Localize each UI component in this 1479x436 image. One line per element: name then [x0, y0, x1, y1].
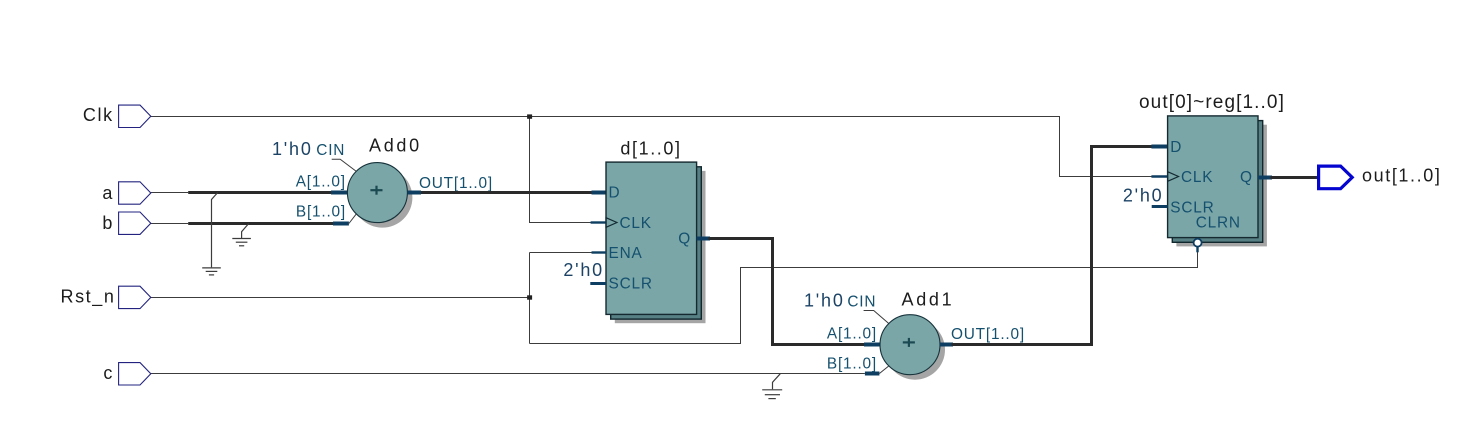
input port Clk	[119, 105, 151, 127]
register out reg shadow	[1176, 125, 1267, 247]
svg-text:Q: Q	[1240, 169, 1253, 186]
reg CLRN bubble	[1194, 239, 1202, 253]
wire bus b thick segment	[188, 222, 334, 225]
svg-text:A[1..0]: A[1..0]	[296, 173, 346, 190]
wire navy stub into reg D	[1151, 145, 1167, 149]
wire bus a navy stub into Add0 A	[331, 191, 348, 195]
wire bus a thick segment	[188, 191, 332, 194]
ground symbol under c	[762, 390, 782, 399]
svg-text:out[0]~reg[1..0]: out[0]~reg[1..0]	[1139, 92, 1285, 113]
svg-text:SCLR: SCLR	[609, 276, 653, 293]
register out reg back box	[1172, 121, 1262, 243]
wire reg Q navy stub	[1258, 176, 1272, 180]
svg-text:Add0: Add0	[369, 136, 422, 156]
d SCLR stub	[590, 282, 606, 285]
register d[1..0] shadow	[615, 171, 706, 323]
ground symbol under a	[202, 268, 221, 275]
input port Rst_n	[119, 286, 151, 308]
register out reg body	[1168, 116, 1258, 238]
input port a	[119, 182, 151, 204]
wire net Rst_n horizontal	[151, 297, 530, 299]
svg-text:CLRN: CLRN	[1196, 214, 1241, 231]
ground tap on bus b	[242, 224, 249, 239]
wire Rst_n to CLRN (bottom run)	[530, 252, 1198, 344]
adder Add1 shadow	[885, 320, 945, 380]
svg-text:1'h0: 1'h0	[272, 139, 313, 159]
svg-text:OUT[1..0]: OUT[1..0]	[951, 326, 1025, 343]
svg-text:ENA: ENA	[609, 245, 643, 262]
svg-text:D: D	[609, 185, 621, 202]
svg-text:d[1..0]: d[1..0]	[620, 139, 681, 159]
output port out[1..0]	[1319, 166, 1353, 189]
svg-text:2'h0: 2'h0	[563, 260, 604, 280]
wire bus Add1 OUT to reg D	[952, 147, 1153, 345]
register d[1..0] back box	[611, 167, 702, 319]
svg-text:Add1: Add1	[902, 290, 955, 310]
wire net b thin segment	[151, 223, 188, 225]
svg-text:2'h0: 2'h0	[1123, 185, 1164, 205]
junction on Clk net	[527, 114, 532, 118]
wire reg Q to output port	[1271, 176, 1319, 179]
svg-text:Rst_n: Rst_n	[60, 286, 115, 307]
svg-text:B[1..0]: B[1..0]	[296, 204, 346, 221]
wire bus Add0 OUT to d D	[421, 191, 592, 194]
d clock triangle	[606, 218, 617, 228]
svg-text:A[1..0]: A[1..0]	[827, 325, 877, 342]
svg-text:CLK: CLK	[1181, 169, 1213, 186]
reg CLK stub	[1151, 175, 1167, 177]
svg-text:Clk: Clk	[83, 105, 114, 125]
wire d Q navy stub	[697, 237, 710, 241]
d ENA stub	[592, 251, 607, 253]
wire Rst_n to d ENA	[530, 252, 593, 254]
register d[1..0] body	[606, 162, 697, 314]
wire bus navy stub into Add1 A	[864, 343, 881, 347]
wire Rst_n vertical trunk	[529, 253, 531, 344]
input port c	[119, 363, 151, 385]
svg-text:c: c	[103, 363, 114, 383]
adder Add1	[880, 315, 940, 375]
Add0 CIN leader line	[332, 159, 357, 171]
adder Add0	[347, 163, 407, 223]
adder Add0 shadow	[352, 168, 412, 228]
reg SCLR stub	[1152, 205, 1168, 208]
ground tap on bus a	[212, 193, 218, 268]
svg-text:a: a	[102, 183, 114, 203]
d CLK stub	[591, 221, 606, 223]
svg-text:out[1..0]: out[1..0]	[1362, 166, 1441, 186]
wire net c	[151, 373, 865, 375]
wire net a thin segment	[151, 192, 188, 194]
ground symbol under b	[232, 239, 251, 246]
wire Add1 OUT navy stub	[940, 343, 953, 347]
wire c navy stub into Add1 B	[865, 366, 889, 374]
svg-text:CIN: CIN	[847, 293, 876, 310]
wire bus b navy stub into Add0 B	[333, 214, 356, 224]
reg clock triangle	[1168, 172, 1179, 182]
svg-text:Q: Q	[678, 231, 691, 248]
svg-text:CIN: CIN	[316, 142, 345, 159]
svg-text:CLK: CLK	[620, 215, 652, 232]
svg-text:b: b	[102, 213, 114, 233]
svg-text:1'h0: 1'h0	[804, 290, 845, 310]
wire bus d Q to Add1 A	[709, 239, 866, 345]
svg-text:OUT[1..0]: OUT[1..0]	[419, 175, 493, 192]
Add1 CIN leader line	[864, 311, 889, 324]
wire net Clk horizontal	[151, 117, 1152, 177]
svg-text:B[1..0]: B[1..0]	[827, 355, 877, 372]
svg-text:D: D	[1170, 139, 1182, 156]
wire Add0 OUT navy stub	[408, 191, 422, 195]
input port b	[119, 212, 151, 234]
ground tap on wire c	[773, 374, 781, 390]
wire Clk branch to d CLK	[530, 117, 593, 223]
wire navy stub into d D	[592, 191, 607, 195]
junction on Rst_n net	[527, 295, 532, 299]
